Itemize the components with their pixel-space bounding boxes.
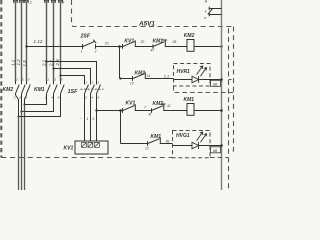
svg-text:HVG1: HVG1 (176, 133, 190, 139)
corner dot row2 (119, 77, 121, 79)
terminal head L1 (13, 0, 18, 3)
dashed segment to v1 bottom (210, 157, 229, 159)
wire coil KM1 to bus (194, 110, 222, 112)
node on bus row3 (220, 109, 223, 112)
1SF output wire 3 (96, 95, 98, 141)
node junction row1 (118, 45, 121, 48)
junction dot on L3 (25, 45, 27, 47)
bus T3 (25, 95, 47, 105)
svg-text:2: 2 (92, 117, 95, 121)
wire drop to row2 (119, 47, 121, 79)
motor line T1 jog (16, 95, 19, 117)
junction dot T3 (23, 103, 25, 105)
branch wire L4 to 1SF pole3 (47, 62, 97, 84)
row2 wire from drop (120, 78, 133, 80)
terminal block row4 (211, 147, 221, 153)
breaker 2SF (83, 40, 97, 49)
svg-text:1: 1 (47, 77, 49, 81)
contact KV1 row3 (123, 104, 152, 113)
breaker 1SF linkage (81, 88, 104, 90)
svg-text:x: x (204, 10, 207, 14)
svg-text:14: 14 (147, 74, 151, 78)
dashed vertical v1 right (228, 28, 230, 190)
svg-text:KV1: KV1 (64, 145, 74, 151)
KV1 inner element 3 (95, 143, 100, 148)
contactor KM1 main pole3 (61, 81, 65, 95)
svg-text:KM2: KM2 (153, 101, 164, 107)
svg-text:68: 68 (213, 82, 217, 86)
svg-text:5: 5 (28, 77, 30, 81)
svg-text:2: 2 (13, 95, 16, 99)
phase line L1 (15, 2, 17, 82)
contactor KM1 main pole1 (47, 81, 51, 95)
corridor dashed from HVR1 box (174, 86, 234, 93)
svg-text:6: 6 (98, 96, 100, 100)
drop wire to row4 (120, 111, 122, 144)
svg-text:1: 1 (87, 117, 89, 121)
LED HVG1 (173, 142, 211, 149)
node on bus row2 (220, 78, 223, 81)
enclosure A5V1 dashed boundary (72, 0, 234, 27)
motor line T2 down (21, 112, 23, 191)
contact KM2 aux row2 (133, 72, 174, 81)
disconnect contact on top right (208, 7, 222, 16)
LED HVR1 arrows (197, 66, 207, 76)
contactor KM2 main pole3 (27, 81, 31, 95)
relay box KV1 (75, 141, 108, 154)
wire 2SF to KV1 (96, 46, 123, 48)
contactor KM2 main pole2 (22, 81, 26, 95)
phase line L5 (53, 2, 55, 82)
terminal head L4 (44, 0, 49, 3)
svg-text:A: A (204, 0, 208, 4)
svg-text:2: 2 (94, 50, 97, 54)
svg-text:7: 7 (144, 105, 146, 109)
svg-text:47: 47 (151, 48, 155, 52)
svg-text:HVR1: HVR1 (177, 69, 191, 75)
KV1 inner element 2 (88, 143, 93, 148)
svg-text:21: 21 (104, 41, 109, 45)
contact KM2 NC row3 (152, 104, 188, 113)
row4 wire (121, 143, 148, 145)
svg-text:1: 1 (85, 80, 87, 84)
svg-text:4: 4 (92, 96, 94, 100)
svg-text:1: 1 (81, 50, 83, 54)
svg-text:~: ~ (80, 117, 82, 121)
contact KV1 row1 (123, 40, 153, 49)
coil KM2 (187, 40, 194, 52)
contact KM1 NC row1 (153, 40, 187, 49)
contactor KM1 main pole2 (54, 81, 58, 95)
junction dot T2 (20, 110, 22, 112)
wire 1.12 control tap (27, 46, 83, 48)
svg-text:28: 28 (172, 40, 177, 44)
svg-text:KM2: KM2 (3, 87, 14, 93)
svg-text:1SF: 1SF (68, 89, 79, 95)
svg-text:KM2: KM2 (135, 70, 146, 76)
motor line T3 down (24, 105, 26, 191)
phase line L2 (21, 2, 23, 82)
svg-text:2.1: 2.1 (163, 75, 169, 79)
svg-text:13: 13 (130, 82, 134, 86)
svg-text:3: 3 (22, 77, 24, 81)
terminal head L5 (51, 0, 56, 3)
motor line T3 jog (25, 95, 27, 105)
svg-text:68: 68 (213, 149, 217, 153)
svg-text:2: 2 (61, 0, 64, 4)
svg-text:13: 13 (145, 147, 149, 151)
svg-text:KM1: KM1 (151, 134, 162, 140)
contact KM1 aux row4 (148, 137, 173, 146)
svg-text:41: 41 (148, 112, 152, 116)
wire HVR1 to bus (210, 79, 222, 81)
svg-text:1.2: 1.2 (16, 59, 21, 66)
svg-text:6: 6 (58, 95, 60, 99)
enclosure dashed border left (0, 0, 2, 158)
dashed vertical v2 right (229, 27, 234, 152)
svg-text:42: 42 (167, 104, 171, 108)
junction dot on 1SF output 3 (95, 109, 97, 111)
wire coil KM2 to bus (194, 46, 222, 48)
svg-text:5: 5 (98, 80, 100, 84)
bus T2 (22, 95, 54, 112)
row3 feed wire (97, 110, 123, 112)
svg-text:1: 1 (16, 77, 18, 81)
svg-text:KV1: KV1 (124, 39, 134, 45)
1SF output wire 1 (84, 95, 86, 141)
svg-text:20: 20 (140, 40, 145, 44)
phase line L3 (26, 2, 28, 82)
svg-text:A5V1: A5V1 (138, 20, 155, 27)
dashed joint at HVR1 level (229, 79, 234, 81)
svg-text:KM2: KM2 (184, 33, 195, 39)
motor line T1 down (18, 117, 20, 191)
junction dot L4 (45, 60, 47, 62)
breaker 1SF pole2 (91, 84, 95, 96)
lamp box HVR1 dashed (174, 64, 211, 87)
lamp box HVG1 dashed (173, 131, 211, 158)
right vertical bus (221, 0, 223, 190)
svg-text:3: 3 (92, 80, 94, 84)
svg-text:2SF: 2SF (80, 34, 91, 40)
junction dot T1 (17, 115, 19, 117)
svg-text:1.1: 1.1 (11, 59, 16, 66)
LED HVG1 arrows (197, 132, 207, 142)
svg-text:81: 81 (166, 140, 170, 144)
svg-text:1.12: 1.12 (34, 39, 43, 44)
node on bus row4 (220, 144, 223, 147)
contactor KM2 main pole1 (16, 81, 20, 95)
svg-text:KM1: KM1 (34, 87, 45, 93)
coil KM1 (187, 104, 194, 116)
terminal head L6 (58, 0, 63, 3)
junction dot L5 (52, 67, 54, 69)
svg-text:2.2: 2.2 (49, 59, 54, 67)
breaker 1SF pole1 (85, 84, 89, 96)
wire HVG1 to bus (210, 145, 222, 147)
svg-text:2.1: 2.1 (42, 59, 47, 67)
phase line L6 (60, 2, 62, 82)
branch wire L5 to 1SF pole2 (54, 69, 91, 84)
terminal head L2 (19, 0, 24, 3)
junction dot row3 (119, 109, 122, 112)
svg-text:KM1: KM1 (153, 39, 164, 45)
branch wire L6 to 1SF pole1 (61, 76, 85, 84)
svg-text:2.3: 2.3 (55, 59, 60, 67)
svg-text:KV1: KV1 (126, 101, 136, 107)
terminal head L3 (24, 0, 29, 3)
bus T1 (19, 95, 61, 117)
node on bus row1 (220, 45, 223, 48)
svg-text:2: 2 (29, 0, 32, 4)
terminal block row2 (211, 80, 221, 86)
enclosure dashed border bottom (1, 157, 173, 159)
svg-text:3: 3 (54, 77, 56, 81)
1SF output wire 2 (90, 95, 92, 141)
svg-text:5: 5 (61, 77, 63, 81)
svg-text:KM1: KM1 (184, 97, 195, 103)
breaker 1SF pole3 (97, 84, 101, 96)
junction dot L6 (59, 74, 61, 76)
svg-text:1.3: 1.3 (22, 60, 27, 67)
phase line L4 (46, 2, 48, 82)
svg-text:п: п (204, 16, 207, 20)
LED HVR1 (174, 76, 211, 83)
KV1 inner element 1 (82, 143, 87, 148)
